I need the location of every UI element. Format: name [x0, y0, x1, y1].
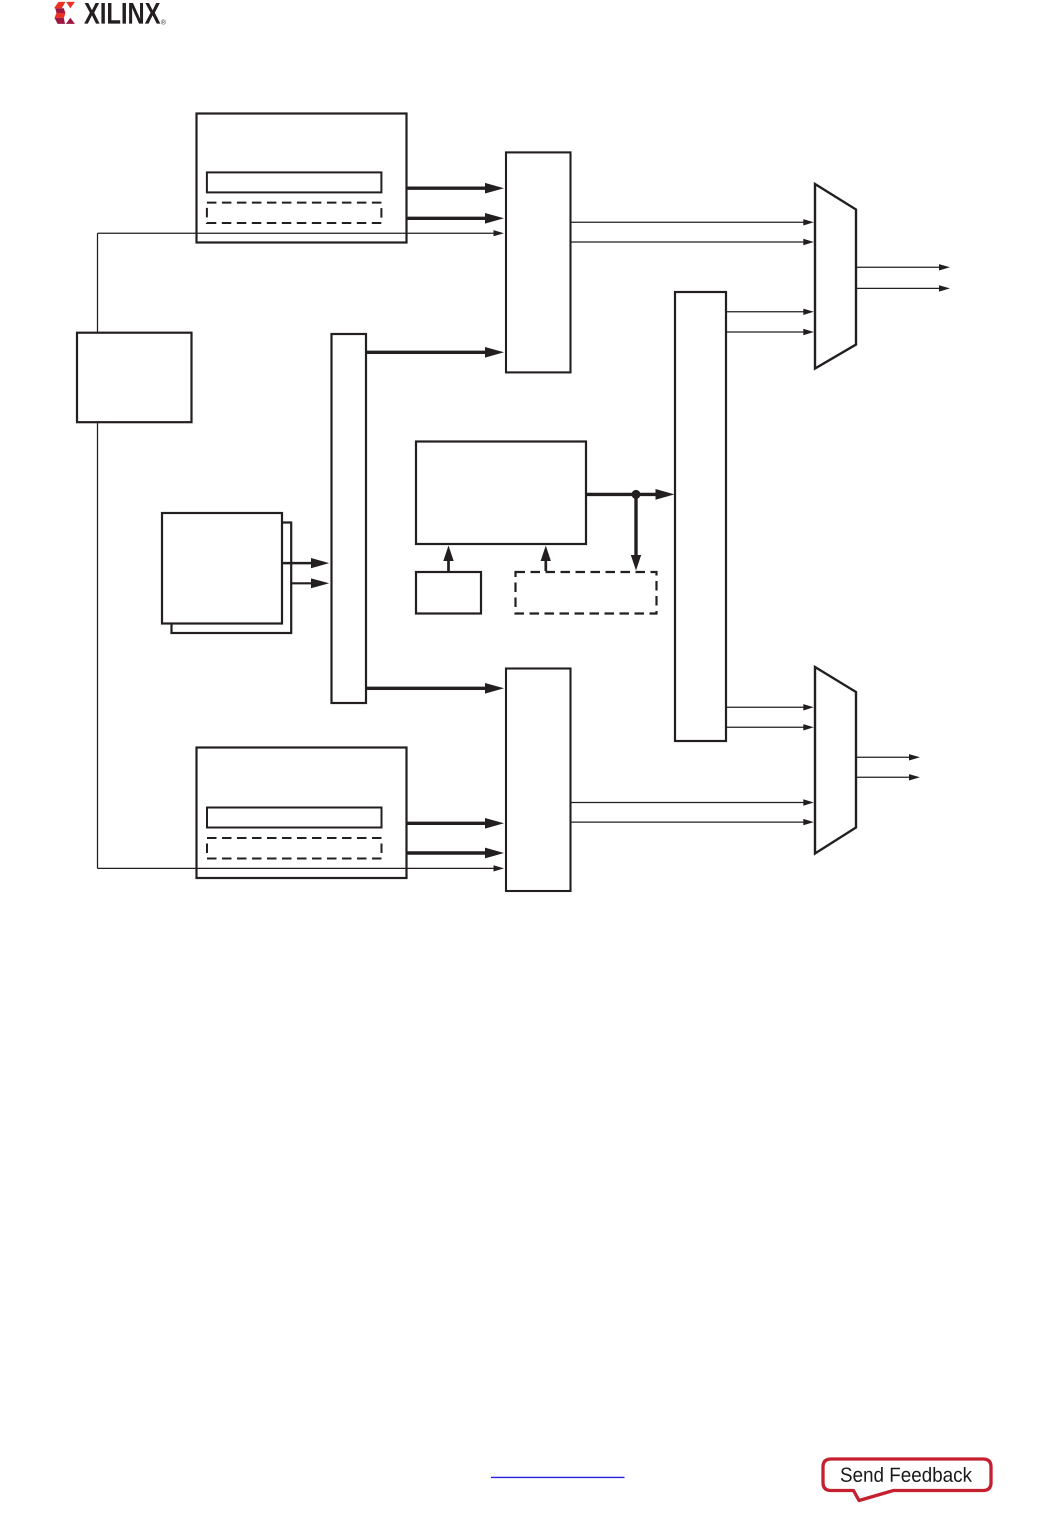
- logo band crimson bottom: [55, 18, 66, 24]
- thick net PLL output horizontal: [586, 489, 675, 500]
- wire clock column to top mux 3: [726, 309, 814, 315]
- block: bottom serializer (tall): [506, 669, 571, 892]
- thick arrow top buffer out 1: [407, 183, 505, 194]
- block: left clock box: [77, 333, 192, 423]
- wire rail to bottom serializer (thin, crosses buffer box): [98, 867, 496, 869]
- block: small control box: [416, 572, 481, 614]
- footer link underline: [491, 1476, 625, 1478]
- Send Feedback button bubble: [823, 1459, 991, 1501]
- up arrow dashed box to PLL: [541, 546, 551, 572]
- wire clock column to bottom mux 1: [726, 704, 814, 710]
- wire bottom mux out 2: [856, 774, 920, 780]
- logo band crimson upper: [55, 8, 65, 13]
- inner register dashed bottom: [207, 838, 382, 859]
- inner register solid bottom: [207, 808, 382, 828]
- thick arrow distributor to top serializer: [366, 347, 504, 358]
- Xilinx logo X-mark: [54, 2, 75, 24]
- block: stacked pair front box: [162, 513, 282, 624]
- block: top I/O buffer group: [197, 114, 407, 243]
- inner register dashed: [207, 203, 382, 223]
- arrowhead thin into top serializer: [494, 230, 505, 236]
- wire bottom serializer to mux 4: [571, 819, 814, 825]
- arrowhead thin into bottom serializer: [494, 865, 505, 871]
- Xilinx wordmark: [84, 3, 160, 24]
- wire bottom serializer to mux 3: [571, 799, 814, 805]
- wire bottom mux out 1: [856, 754, 920, 760]
- thick arrow bottom buffer out 2: [407, 848, 505, 859]
- block: PLL center box: [416, 442, 586, 545]
- thick arrow distributor to bottom serializer: [366, 683, 504, 694]
- junction dot on PLL net: [632, 490, 641, 499]
- logo chevron top-left red: [54, 2, 65, 8]
- left rail wire vertical: [97, 233, 99, 868]
- wire clock column to top mux 4: [726, 329, 814, 335]
- mux top trapezoid: [815, 184, 856, 369]
- inner register solid: [207, 172, 382, 192]
- block: dashed optional box: [516, 572, 657, 614]
- thick arrow bottom buffer out 1: [407, 818, 505, 829]
- arrow stacked box out 1: [282, 558, 329, 568]
- wire top mux out 2: [856, 285, 950, 291]
- block: narrow tall distributor: [332, 334, 367, 703]
- registered trademark: [161, 20, 166, 25]
- block: top serializer (tall): [506, 152, 571, 372]
- Send Feedback label: [841, 1467, 972, 1482]
- mux bottom trapezoid: [815, 667, 856, 854]
- block: stacked pair back box: [172, 523, 292, 634]
- thick net PLL output vertical drop: [631, 494, 641, 570]
- block: clock column tall box: [675, 292, 726, 741]
- up arrow control to PLL: [443, 546, 453, 572]
- wire rail to top serializer (thin, crosses buffer box): [98, 232, 496, 234]
- logo triangle top-right red: [66, 2, 75, 8]
- logo band red lower: [55, 13, 66, 18]
- block: bottom I/O buffer group: [197, 748, 407, 879]
- logo triangle bottom-right crimson: [66, 18, 75, 24]
- wire top serializer to mux 1: [571, 219, 814, 225]
- wire clock column to bottom mux 2: [726, 724, 814, 730]
- thick arrow top buffer out 2: [407, 213, 505, 224]
- arrow stacked box out 2: [291, 578, 329, 588]
- wire top mux out 1: [856, 264, 950, 270]
- wire top serializer to mux 2: [571, 239, 814, 245]
